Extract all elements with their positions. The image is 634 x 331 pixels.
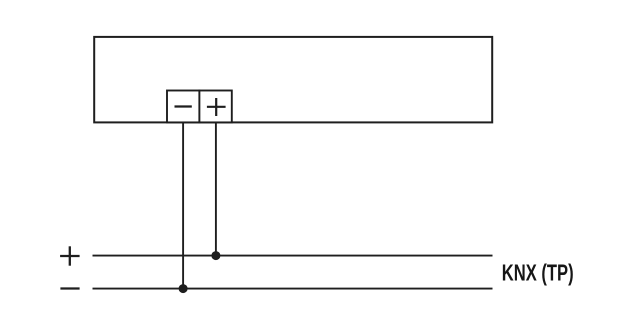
svg-text:KNX (TP): KNX (TP) <box>502 261 574 286</box>
wire from minus terminal to KNX minus bus <box>182 122 184 288</box>
terminal box plus (+) <box>199 91 231 123</box>
plus polarity label <box>60 255 80 257</box>
minus symbol in terminal <box>175 105 192 107</box>
KNX plus bus wire <box>93 255 493 257</box>
wire from plus terminal to KNX plus bus <box>215 122 217 255</box>
junction dot plus wire on plus bus <box>211 251 220 260</box>
KNX minus bus wire <box>93 288 493 290</box>
device box U1 <box>94 37 492 123</box>
terminal box minus (-) <box>167 91 199 123</box>
junction dot minus wire on minus bus <box>179 284 188 293</box>
plus symbol in terminal <box>207 106 226 108</box>
minus polarity label <box>60 287 79 289</box>
